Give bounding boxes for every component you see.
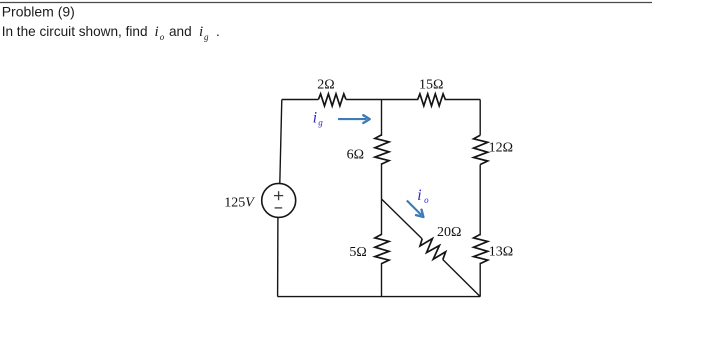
top rule line [0, 2, 652, 4]
resistor R 13ohm [474, 234, 488, 263]
resistor R 20ohm (diagonal) [418, 234, 449, 265]
resistor R 5ohm [375, 234, 389, 263]
wire right rail lower [479, 263, 481, 297]
svg-text:5Ω: 5Ω [349, 245, 366, 260]
svg-text:i: i [417, 187, 421, 204]
voltage source V1 circle [262, 183, 296, 217]
wire diagonal lower [443, 260, 480, 297]
svg-text:20Ω: 20Ω [437, 225, 461, 240]
resistor R 2ohm [318, 94, 346, 106]
wire bottom rail [278, 296, 481, 298]
svg-text:o: o [424, 195, 429, 205]
svg-text:13Ω: 13Ω [489, 245, 513, 260]
svg-text:6Ω: 6Ω [347, 148, 364, 163]
svg-text:125V: 125V [224, 195, 255, 210]
wire diagonal upper [382, 199, 423, 239]
wire right rail upper [479, 100, 481, 136]
wire top rail left segment [282, 99, 319, 101]
wire top rail right segment [445, 99, 481, 101]
svg-text:o: o [160, 32, 165, 42]
svg-text:i: i [199, 24, 203, 40]
svg-text:i: i [313, 110, 317, 127]
svg-text:12Ω: 12Ω [489, 140, 513, 155]
arrow i_o (blue, diagonal down-right) [404, 198, 426, 220]
svg-text:15Ω: 15Ω [419, 78, 443, 93]
svg-text:In the circuit shown, find: In the circuit shown, find [2, 24, 148, 39]
resistor R 15ohm [418, 94, 446, 106]
svg-text:g: g [318, 118, 323, 128]
wire middle rail lower [381, 263, 383, 297]
wire right rail center [479, 165, 481, 236]
wire left rail upper [280, 100, 282, 184]
wire middle rail upper [381, 100, 383, 136]
resistor R 6ohm [375, 135, 389, 164]
svg-text:g: g [204, 32, 209, 42]
svg-text:Problem (9): Problem (9) [2, 3, 75, 19]
wire top rail middle segment [346, 99, 418, 101]
wire middle rail center [381, 163, 383, 235]
voltage source minus sign [275, 207, 283, 209]
wire left rail lower [277, 217, 279, 296]
svg-text:i: i [155, 24, 159, 40]
voltage source plus sign [274, 191, 283, 200]
resistor R 12ohm [474, 135, 488, 164]
svg-text:.: . [216, 24, 220, 39]
svg-text:2Ω: 2Ω [317, 78, 334, 93]
arrow i_g (blue, rightward) [338, 115, 370, 123]
svg-text:and: and [169, 24, 192, 39]
